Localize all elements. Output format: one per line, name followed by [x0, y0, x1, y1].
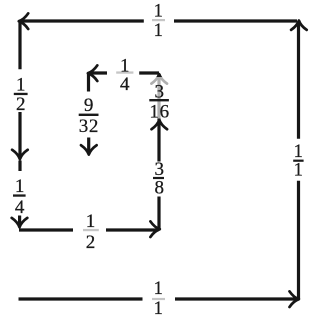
wire right edge (arrow 1/1, pointing up)	[297, 22, 300, 299]
wire top edge (arrow 1/1, pointing left)	[20, 19, 297, 22]
wire inner top (arrow 1/4, pointing left)	[89, 71, 159, 74]
svg-text:4: 4	[120, 74, 130, 95]
svg-text:1: 1	[16, 75, 26, 96]
arrowhead top-right (points up)	[291, 21, 307, 30]
wire bottom edge (arrow 1/1, pointing right)	[19, 297, 299, 300]
svg-text:2: 2	[86, 232, 96, 253]
arrowhead inner vertical top (points up, partly covered by label box)	[151, 74, 167, 83]
svg-text:1: 1	[154, 1, 164, 22]
arrowhead inner vertical middle (points up)	[152, 120, 168, 129]
label 1/2 on left edge	[14, 75, 28, 116]
svg-text:1: 1	[154, 20, 164, 41]
arrowhead left-bottom corner (points down)	[12, 218, 28, 227]
arrowhead inner top-left corner (points left)	[88, 65, 97, 81]
label 9/32 on inner left vertical	[79, 95, 99, 137]
svg-text:4: 4	[15, 197, 25, 218]
arrowhead bottom-right (points right)	[290, 291, 299, 307]
wire left edge lower (arrow 1/4, pointing down)	[18, 161, 22, 227]
arrowhead top-left (points left)	[19, 13, 28, 29]
svg-text:16: 16	[149, 102, 169, 123]
label 1/1 on right edge	[293, 141, 303, 181]
svg-text:1: 1	[120, 55, 130, 76]
wire inner left vertical (arrow 9/32, pointing down)	[87, 74, 90, 154]
svg-text:1: 1	[154, 298, 164, 319]
svg-text:32: 32	[79, 116, 99, 137]
arrowhead inner left bottom (points down)	[81, 145, 97, 154]
label 1/4 on inner top	[116, 55, 133, 95]
wire inner right vertical upper (arrow 3/16, pointing up, head faded under label)	[157, 74, 160, 121]
label 1/1 on bottom edge	[152, 278, 165, 319]
label 3/16 on inner vertical (with white box over arrowhead)	[147, 77, 173, 123]
svg-text:9: 9	[84, 95, 94, 116]
arrowhead inner bottom-right corner (points right)	[150, 221, 159, 237]
arrowhead left edge middle (points down)	[12, 150, 28, 159]
label 3/8 on inner vertical	[153, 159, 164, 199]
label 1/1 on top edge	[152, 1, 165, 41]
svg-text:3: 3	[155, 81, 165, 102]
wire left edge upper (arrow 1/2, pointing down)	[18, 21, 21, 158]
svg-text:8: 8	[154, 177, 164, 198]
label 1/2 on inner bottom	[83, 211, 99, 253]
svg-text:1: 1	[86, 211, 96, 232]
svg-text:2: 2	[16, 94, 26, 115]
wire inner bottom (arrow 1/2, pointing right)	[19, 228, 159, 231]
svg-text:1: 1	[15, 176, 25, 197]
label 1/4 on left edge	[13, 176, 26, 218]
svg-text:1: 1	[293, 160, 303, 181]
wire inner right vertical lower (arrow 3/8, pointing up)	[157, 122, 160, 230]
svg-text:1: 1	[154, 278, 164, 299]
